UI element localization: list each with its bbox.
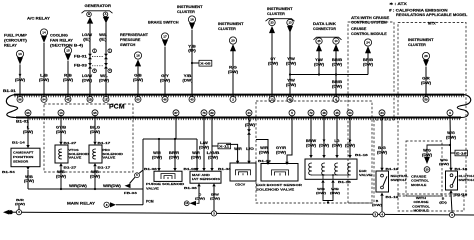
wire BR/B data link — [335, 51, 337, 98]
svg-text:B1-33: B1-33 — [218, 167, 231, 171]
brake switch connector pin 17 — [161, 33, 168, 40]
purge solenoid valve box — [154, 171, 182, 181]
svg-text:(E): (E) — [99, 37, 107, 41]
PCM pin 46 — [162, 96, 168, 102]
pin label B1-17 top — [93, 142, 96, 145]
svg-text:(DW): (DW) — [316, 191, 326, 195]
svg-text:COOLING: COOLING — [50, 34, 68, 38]
A/C relay connector pin 14 — [40, 29, 47, 36]
svg-text:(DW): (DW) — [90, 175, 100, 179]
svg-text:W/R: W/R — [234, 147, 242, 151]
svg-text:GY/B: GY/B — [56, 126, 67, 130]
svg-text:LG/W: LG/W — [82, 74, 93, 78]
arrow up GY — [269, 26, 275, 33]
svg-text:W/B: W/B — [57, 170, 65, 174]
cooling fan relay connector pin 15 — [64, 47, 71, 54]
svg-text:ATX:WITH CRUISE: ATX:WITH CRUISE — [351, 16, 390, 20]
PCM second-bus pin 96 — [25, 110, 31, 116]
generator terminal A — [103, 12, 108, 17]
PCM left break curve — [6, 95, 17, 118]
svg-text:50: 50 — [348, 111, 352, 115]
svg-text:A: A — [105, 12, 107, 16]
svg-text:LG: LG — [334, 139, 340, 143]
svg-text:W/R(DW): W/R(DW) — [69, 184, 87, 188]
svg-text:(DW): (DW) — [82, 78, 92, 82]
wire GY/B from pin 13 — [60, 115, 62, 142]
svg-text:B1-14: B1-14 — [12, 141, 25, 145]
svg-text:(D): (D) — [439, 201, 447, 205]
arrow up data link 2 — [333, 44, 339, 51]
cruise module terminal 20 — [424, 167, 430, 173]
svg-text:26: 26 — [424, 54, 428, 58]
pin label B1-18 bottom — [449, 190, 452, 193]
svg-text:L/G/B: L/G/B — [207, 151, 221, 155]
svg-text:(DW): (DW) — [182, 78, 192, 82]
svg-text:# : CALIFORNIA EMISSION: # : CALIFORNIA EMISSION — [389, 8, 448, 12]
PCM pin 49 — [287, 96, 293, 102]
pin label B1-19 top — [380, 168, 383, 171]
dashed box ATX solenoid valves — [44, 104, 133, 172]
svg-text:13: 13 — [18, 52, 22, 56]
svg-text:BRAKE SWITCH: BRAKE SWITCH — [148, 21, 179, 25]
svg-text:(DW): (DW) — [15, 202, 25, 206]
svg-text:L/O: L/O — [246, 147, 254, 151]
pin label B1-17 bottom — [93, 163, 96, 166]
svg-text:B1-19: B1-19 — [386, 195, 399, 199]
svg-text:CONNECTOR: CONNECTOR — [313, 27, 336, 31]
svg-text:R/B: R/B — [64, 74, 72, 78]
fuel pump relay connector pin 13 — [16, 50, 23, 57]
PCM second-bus pin 45 — [334, 110, 340, 116]
svg-text:FUEL PUMP: FUEL PUMP — [4, 34, 28, 38]
VTCS solenoid valve box — [55, 145, 68, 163]
wire W/R MAF — [196, 139, 198, 169]
svg-text:CLUSTER: CLUSTER — [267, 12, 285, 16]
dashed box ATX cruise control right — [348, 22, 394, 203]
svg-text:15: 15 — [66, 49, 70, 53]
pin labels B1-06 MAF — [195, 168, 198, 171]
svg-text:59: 59 — [424, 97, 428, 101]
svg-text:B1-17: B1-17 — [98, 166, 111, 170]
arrow down cruise module — [424, 157, 430, 164]
svg-text:BR/B: BR/B — [363, 58, 374, 62]
svg-text:(DW): (DW) — [422, 153, 432, 157]
PCM second-bus pin 9 — [447, 110, 453, 116]
svg-text:(DW): (DW) — [39, 78, 49, 82]
svg-text:MODULE: MODULE — [413, 209, 428, 213]
svg-text:(DW): (DW) — [195, 197, 205, 201]
svg-text:REFRIGERANT: REFRIGERANT — [120, 33, 149, 37]
svg-text:X-11: X-11 — [219, 144, 230, 148]
PCM pin 2 — [230, 96, 236, 102]
svg-text:(DW): (DW) — [210, 197, 220, 201]
svg-text:(DW): (DW) — [363, 62, 373, 66]
PCM second-bus pin 44 — [246, 110, 252, 116]
connector 3 on B/W wire — [211, 211, 216, 216]
data link terminal 25 — [316, 38, 322, 44]
wire W/R to CDCV — [226, 144, 238, 161]
svg-text:MTX: MTX — [428, 21, 436, 25]
svg-text:B1-01: B1-01 — [3, 89, 16, 93]
svg-text:B/G: B/G — [378, 146, 386, 150]
svg-text:W/L: W/L — [99, 33, 107, 37]
svg-text:REGULATIONS APPLICABLE MODEL: REGULATIONS APPLICABLE MODEL — [396, 13, 467, 17]
svg-text:(DW): (DW) — [23, 130, 33, 134]
cooling fan relay arrow — [65, 54, 71, 61]
svg-text:W/G: W/G — [447, 131, 455, 135]
svg-text:BR/B: BR/B — [332, 58, 343, 62]
svg-text:(DW): (DW) — [286, 83, 296, 87]
svg-text:FB-03: FB-03 — [74, 64, 87, 68]
ground wire W/R collector — [28, 188, 143, 190]
PCM second bus — [16, 117, 461, 119]
junction dot X-05 — [191, 62, 193, 64]
connector X-05 — [199, 60, 212, 66]
svg-text:FB-01: FB-01 — [74, 54, 87, 58]
svg-text:94: 94 — [42, 97, 46, 101]
svg-text:B1-18: B1-18 — [455, 193, 468, 197]
svg-text:(DW): (DW) — [63, 78, 73, 82]
wire W/B VTCS — [60, 166, 62, 189]
svg-text:(DW): (DW) — [56, 175, 66, 179]
svg-text:VALVE: VALVE — [103, 156, 116, 160]
PCM second-bus pin 13 — [58, 110, 64, 116]
svg-text:(DW): (DW) — [208, 155, 218, 159]
wire B neutral — [381, 196, 383, 212]
svg-text:(DW): (DW) — [286, 61, 296, 65]
arrow up data link 1 — [316, 44, 322, 51]
svg-text:46: 46 — [163, 97, 167, 101]
svg-text:Y/B: Y/B — [188, 44, 196, 48]
svg-text:SWITCH: SWITCH — [391, 178, 406, 182]
svg-text:B1-01: B1-01 — [16, 120, 29, 124]
instrument cluster arrow — [189, 23, 195, 30]
svg-text:SENSOR: SENSOR — [13, 159, 29, 163]
instrument cluster connector pin 20 — [229, 37, 236, 44]
PCM second bus pin hatch — [30, 118, 460, 120]
pin label B1-54 — [26, 167, 29, 170]
svg-text:(DW): (DW) — [446, 135, 456, 139]
wire B/LG from pin 95 — [94, 115, 96, 142]
svg-text:A/C RELAY: A/C RELAY — [27, 17, 51, 21]
svg-text:G/B: G/B — [134, 74, 142, 78]
PCM second-bus pin 34 — [379, 110, 385, 116]
wire Y/B upper — [191, 30, 193, 98]
svg-text:13: 13 — [334, 39, 338, 43]
svg-text:16: 16 — [136, 54, 140, 58]
branch wire Y/W to data link — [289, 73, 291, 75]
wire W/B EGR 1 — [322, 183, 324, 199]
svg-text:INSTRUMENT: INSTRUMENT — [218, 22, 245, 26]
wire W/G from pin 9 — [449, 115, 452, 168]
svg-text:Y/W: Y/W — [287, 57, 296, 61]
svg-text:25: 25 — [317, 39, 321, 43]
svg-text:PRESSURE: PRESSURE — [120, 38, 141, 42]
PCM second-bus pin 48 — [321, 110, 327, 116]
svg-text:76: 76 — [202, 111, 206, 115]
svg-text:(DW): (DW) — [152, 155, 162, 159]
PCM second-bus pin 50 — [347, 110, 353, 116]
pin label B1-19 bottom — [380, 193, 383, 196]
svg-text:B1-06: B1-06 — [184, 167, 197, 171]
svg-text:18: 18 — [190, 18, 194, 22]
pin label B1-27 bottom — [59, 163, 62, 166]
svg-text:(DW): (DW) — [330, 191, 340, 195]
MTX instrument cluster connector pin 26 — [422, 52, 429, 59]
wire from PCM pin 87 — [175, 115, 177, 139]
PCM top bus — [14, 94, 464, 96]
svg-text:B1-16: B1-16 — [355, 153, 368, 157]
svg-text:(DW): (DW) — [24, 179, 34, 183]
svg-text:W/B: W/B — [91, 170, 99, 174]
svg-text:GY/R: GY/R — [276, 146, 287, 150]
svg-text:W/R: W/R — [192, 151, 200, 155]
dashed box MTX cluster — [398, 23, 466, 197]
PCM second-bus pin 72 — [308, 110, 314, 116]
svg-text:W/R: W/R — [260, 146, 268, 150]
dashed box cruise control module — [406, 141, 442, 196]
svg-text:95: 95 — [93, 111, 97, 115]
svg-text:VALVE: VALVE — [359, 173, 372, 177]
inline connector 13 — [184, 201, 189, 206]
svg-text:L/W: L/W — [200, 141, 209, 145]
svg-text:24: 24 — [366, 41, 370, 45]
svg-text:G/Y: G/Y — [161, 74, 170, 78]
wire GY/R boost — [287, 116, 292, 162]
svg-text:96: 96 — [26, 111, 30, 115]
arrow down Y/W — [287, 26, 293, 33]
neutral switch box — [376, 171, 389, 192]
svg-text:INSTRUMENT: INSTRUMENT — [408, 38, 435, 42]
svg-text:(DW): (DW) — [268, 61, 278, 65]
svg-text:L: L — [27, 126, 30, 130]
main relay wire — [22, 212, 474, 215]
svg-text:4E: 4E — [66, 97, 70, 101]
PCM pin 59 — [423, 96, 429, 102]
connector 3 left — [16, 210, 21, 215]
svg-text:R/G: R/G — [229, 66, 237, 70]
svg-text:W/B: W/B — [25, 175, 33, 179]
svg-text:W/R: W/R — [153, 151, 161, 155]
data link connector bracket — [314, 37, 342, 40]
EGR valve box — [305, 159, 357, 179]
wire Y/W — [289, 26, 291, 98]
wire W/R purge 1 — [158, 139, 160, 169]
wire BR/R purge 2 — [174, 139, 176, 169]
svg-text:(DW): (DW) — [160, 78, 170, 82]
refrigerant pressure switch arrow — [135, 59, 141, 66]
PCM pin 1E — [103, 96, 109, 102]
svg-text:B1-06: B1-06 — [184, 186, 197, 190]
PCM pin 40 — [189, 96, 195, 102]
EGR valve internal common — [311, 175, 350, 179]
svg-text:(D): (D) — [188, 49, 196, 53]
svg-text:DATA LINK: DATA LINK — [313, 22, 337, 26]
PRC solenoid valve box — [89, 145, 102, 163]
CDCV box — [230, 163, 256, 181]
main relay wire horizontal — [116, 204, 143, 206]
main relay arrow — [110, 202, 116, 207]
svg-text:48: 48 — [322, 111, 326, 115]
svg-text:MODULE: MODULE — [411, 183, 426, 187]
svg-text:BR/W: BR/W — [306, 139, 317, 143]
cruise control module terminal 24 — [364, 39, 371, 46]
svg-text:W/G: W/G — [423, 149, 431, 153]
wire LG/W (E) — [89, 24, 91, 98]
svg-text:RELAY: RELAY — [4, 44, 18, 48]
svg-text:Y/W: Y/W — [315, 58, 324, 62]
svg-text:VALVE: VALVE — [69, 156, 82, 160]
wire GY — [271, 33, 273, 98]
svg-text:(DW): (DW) — [133, 78, 143, 82]
arrow down MTX — [423, 60, 429, 67]
PCM pin 13 — [269, 96, 275, 102]
wire W/L (E) — [105, 17, 107, 98]
svg-text:(DW): (DW) — [314, 62, 324, 66]
EGR boost sensor solenoid valve box — [261, 164, 298, 182]
svg-text:E-16: E-16 — [456, 151, 467, 155]
PCM top bus pin hatch — [15, 95, 464, 97]
svg-text:(DW): (DW) — [191, 155, 201, 159]
svg-text:CONTROL MODULE: CONTROL MODULE — [351, 32, 388, 36]
svg-text:23: 23 — [270, 21, 274, 25]
svg-text:(DW): (DW) — [332, 84, 342, 88]
connector 3 clutch — [449, 212, 454, 217]
wire B/G from pin 34 — [381, 115, 383, 168]
svg-text:B1-18: B1-18 — [455, 167, 468, 171]
svg-text:CDCV: CDCV — [235, 183, 245, 187]
svg-text:INSTRUMENT: INSTRUMENT — [267, 7, 294, 11]
wire B clutch — [451, 193, 452, 212]
svg-text:Y/W: Y/W — [287, 79, 296, 83]
svg-text:B1-27: B1-27 — [64, 166, 77, 170]
svg-text:GENERATOR: GENERATOR — [85, 4, 112, 8]
svg-text:(DW): (DW) — [306, 143, 316, 147]
svg-text:B1-06: B1-06 — [144, 167, 157, 171]
svg-text:89: 89 — [210, 111, 214, 115]
svg-text:CAMSHAFT: CAMSHAFT — [13, 150, 34, 154]
wire R/G — [232, 51, 234, 98]
connector X-11 stub — [212, 145, 218, 147]
svg-text:(DW): (DW) — [245, 123, 255, 127]
svg-text:CLUSTER: CLUSTER — [218, 27, 236, 31]
wire B/W — [213, 186, 215, 210]
wire W/B camshaft — [27, 170, 29, 189]
wire G/R — [425, 67, 427, 98]
PCM right break curve — [457, 95, 471, 118]
wire BR/W EGR valve — [310, 115, 312, 155]
A/C relay arrow — [41, 36, 47, 43]
arrow left main relay feed — [3, 210, 9, 215]
collector line above purge — [143, 138, 197, 140]
wire W/B PRC — [94, 166, 96, 189]
instrument cluster connector pin 18 — [188, 16, 195, 23]
svg-text:CRUISE: CRUISE — [351, 27, 367, 31]
inline connector FB-03 circle — [135, 173, 140, 178]
PCM second-bus pin 87 — [173, 110, 179, 116]
fuel pump relay arrow — [17, 57, 23, 64]
svg-text:96: 96 — [18, 97, 22, 101]
svg-text:W/L: W/L — [100, 74, 108, 78]
svg-text:B/LG: B/LG — [90, 126, 101, 130]
svg-text:W/R(DW): W/R(DW) — [103, 184, 121, 188]
svg-text:(DW): (DW) — [199, 145, 209, 149]
generator arrow down — [103, 17, 109, 24]
svg-text:(E): (E) — [83, 37, 91, 41]
svg-text:20: 20 — [425, 168, 429, 172]
connector X-11 — [218, 143, 231, 149]
PCM pin 4E — [65, 96, 71, 102]
generator terminal B — [87, 12, 92, 17]
branch to FB-03 — [139, 170, 143, 173]
wire LG EGR valve — [336, 115, 338, 155]
svg-text:IAT SENSORS: IAT SENSORS — [192, 177, 220, 181]
wire V to PCM pin 96 — [19, 65, 21, 98]
svg-text:72: 72 — [309, 111, 313, 115]
inline connector on V wire — [247, 129, 251, 132]
svg-text:(DW): (DW) — [169, 155, 179, 159]
svg-text:(DW): (DW) — [345, 143, 355, 147]
connector 4 neutral — [380, 212, 385, 217]
data link terminal 13 — [333, 38, 339, 44]
svg-text:1E: 1E — [104, 97, 108, 101]
svg-text:LG/W: LG/W — [82, 33, 93, 37]
svg-text:(DW): (DW) — [90, 130, 100, 134]
generator connector bracket — [82, 11, 113, 13]
svg-text:34: 34 — [380, 111, 384, 115]
svg-text:(DW): (DW) — [259, 150, 269, 154]
arrow to connector 13 — [190, 201, 197, 206]
PCM pin 1B — [87, 96, 93, 102]
wire G/B — [137, 66, 139, 97]
svg-text:CONTROL SYSTEM: CONTROL SYSTEM — [351, 21, 387, 25]
PCM pin 6 — [333, 96, 339, 102]
svg-text:(DW): (DW) — [421, 81, 431, 85]
svg-text:BR/R: BR/R — [169, 151, 180, 155]
wire G/Y — [164, 47, 166, 98]
wire W/G branch — [427, 145, 450, 158]
arrow up cruise — [365, 46, 371, 53]
camshaft position sensor box — [11, 148, 40, 167]
wire L from pin 96 — [27, 115, 29, 145]
svg-text:VALVE: VALVE — [146, 186, 159, 190]
PCM second-bus pin 5 — [289, 110, 295, 116]
EGR ground merge — [323, 199, 333, 204]
instrument cluster terminal 13 — [287, 19, 293, 25]
svg-text:B1-54: B1-54 — [2, 170, 15, 174]
svg-text:FB-03: FB-03 — [124, 191, 137, 195]
svg-text:(DW): (DW) — [319, 143, 329, 147]
wire O — [198, 186, 200, 199]
PCM second-bus pin 95 — [92, 110, 98, 116]
svg-text:X-05: X-05 — [200, 62, 211, 66]
svg-text:(DW): (DW) — [332, 62, 342, 66]
svg-text:POSITION: POSITION — [13, 155, 33, 159]
svg-text:(DW): (DW) — [372, 203, 382, 207]
svg-text:L/B: L/B — [40, 74, 48, 78]
svg-text:G/R: G/R — [422, 77, 430, 81]
PCM second-bus pin 76 — [201, 110, 207, 116]
PCM second-bus pin 89 — [209, 110, 215, 116]
svg-text:87: 87 — [174, 111, 178, 115]
wire L/G/B from pin 89 — [211, 115, 213, 168]
clutch switch box — [446, 171, 458, 190]
wire BR/B cruise — [367, 53, 369, 75]
svg-text:SOLENOID VALVE: SOLENOID VALVE — [256, 187, 294, 191]
wire R/B to PCM pin 4E — [67, 61, 69, 98]
svg-text:40: 40 — [190, 97, 194, 101]
svg-text:MAIN RELAY: MAIN RELAY — [67, 202, 96, 206]
